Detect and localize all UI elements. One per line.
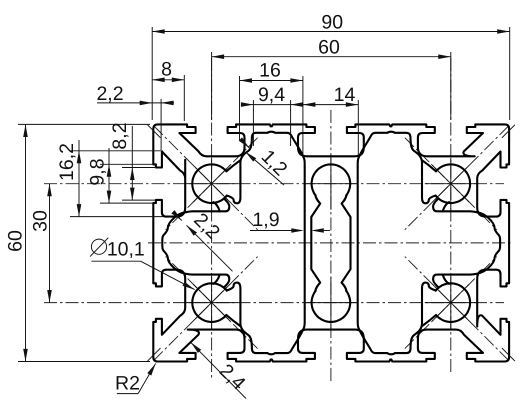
diagonal centerlines circle 211 183 [154, 126, 258, 230]
centerline col 2 [330, 110, 332, 381]
svg-text:9,8: 9,8 [87, 158, 109, 185]
dim 1,2 leader [245, 152, 284, 185]
centerline col 3 [450, 58, 452, 372]
centre mark circle 330 302 [305, 302, 357, 304]
dia 10,1 leader [91, 260, 140, 262]
centerline row 1 [44, 183, 504, 185]
svg-text:1,9: 1,9 [252, 209, 279, 231]
centre mark circle 211 183 [186, 183, 238, 185]
dim 16 [240, 80, 303, 82]
dim 60 left [25, 124, 27, 361]
dim 2,4 [191, 342, 246, 398]
profile outer contour [153, 124, 509, 361]
svg-text:10,1: 10,1 [107, 239, 145, 261]
centerline row 2 [44, 302, 504, 304]
bone left wall [311, 195, 320, 291]
svg-text:14: 14 [334, 84, 356, 106]
dim 2,2 diagonal [187, 225, 233, 271]
dim 8 [152, 79, 184, 81]
dim 14 [303, 104, 358, 106]
dim 60 top [212, 56, 451, 58]
svg-text:90: 90 [321, 11, 343, 33]
centre mark circle 450 302 [425, 302, 477, 304]
dim 1,9 [250, 230, 294, 232]
svg-text:8: 8 [161, 59, 172, 81]
centerline col 1 [211, 58, 213, 378]
bore circles [192, 164, 227, 203]
centerline mid horizontal [148, 242, 512, 244]
dim 90 [152, 31, 510, 33]
svg-text:60: 60 [318, 37, 340, 59]
dim 2,2 top [97, 102, 174, 104]
diagonal centerlines circle 211 302 [154, 257, 258, 361]
diagonal centerlines circle 450 302 [405, 257, 509, 361]
svg-text:16: 16 [259, 60, 281, 82]
centre mark circle 211 302 [186, 302, 238, 304]
centre mark circle 330 183 [305, 183, 357, 185]
svg-text:8,2: 8,2 [109, 122, 131, 149]
svg-text:16,2: 16,2 [56, 143, 78, 181]
svg-text:30: 30 [30, 210, 52, 232]
svg-text:2,2: 2,2 [96, 83, 123, 105]
centre mark circle 450 183 [425, 183, 477, 185]
dim 30 [49, 184, 51, 303]
left chamber contour [227, 132, 305, 355]
diagonal centerlines circle 450 183 [405, 126, 509, 230]
dim 9,8 [108, 148, 110, 203]
svg-text:60: 60 [5, 230, 27, 252]
right chamber contour [358, 132, 436, 355]
corner chamfer construction lines [148, 125, 161, 138]
dim 9,4 [243, 104, 254, 106]
svg-text:R2: R2 [115, 372, 140, 394]
dim 8,2 [131, 126, 133, 200]
dim R2 [117, 393, 138, 395]
svg-text:9,4: 9,4 [258, 84, 285, 106]
dim 16,2 [78, 140, 80, 217]
bone right wall [342, 195, 351, 291]
